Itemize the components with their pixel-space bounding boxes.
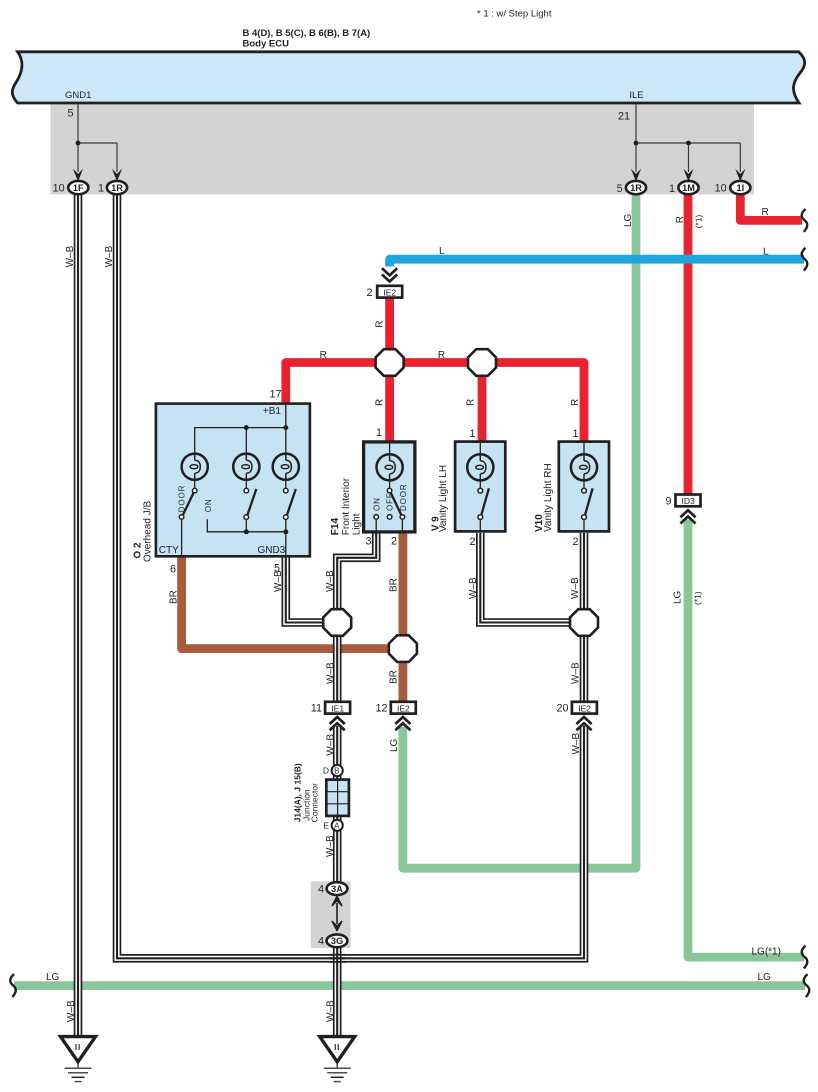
svg-text:17: 17 xyxy=(269,389,281,401)
ILE branch lines xyxy=(636,105,740,173)
Vanity Light RH V10 box xyxy=(559,442,609,532)
arrow double chevron up from IE2-20 xyxy=(576,717,591,730)
svg-text:LG: LG xyxy=(623,213,634,227)
svg-text:BR: BR xyxy=(389,670,400,684)
svg-text:DOOR: DOOR xyxy=(399,483,408,511)
arrow double chevron up below ID3 xyxy=(680,510,695,523)
junction connector circle A xyxy=(332,820,343,831)
svg-text:Connector: Connector xyxy=(310,783,320,822)
svg-text:ILE: ILE xyxy=(629,90,643,101)
svg-text:B 4(D), B 5(C), B 6(B), B 7(A): B 4(D), B 5(C), B 6(B), B 7(A) xyxy=(243,28,371,39)
svg-text:W–B: W–B xyxy=(325,835,336,857)
V9 switch xyxy=(478,488,483,493)
connector IE2 pin 12 box xyxy=(391,702,416,714)
connector oval 1R right xyxy=(626,181,646,194)
node octagon B xyxy=(468,349,496,376)
svg-text:2: 2 xyxy=(469,536,475,548)
arrowhead into 1M xyxy=(683,169,693,182)
svg-text:W–B: W–B xyxy=(571,662,582,684)
wire R from IE2-2 down to F14 xyxy=(385,299,394,442)
svg-text:W–B: W–B xyxy=(571,733,582,755)
svg-text:ON: ON xyxy=(204,498,213,512)
svg-text:(*1): (*1) xyxy=(694,215,704,229)
svg-text:2: 2 xyxy=(366,287,372,299)
svg-text:R: R xyxy=(320,350,327,361)
wire W-B from O2 GND3 to octagon 1 xyxy=(286,557,330,623)
wire LG long bottom horizontal xyxy=(14,981,805,990)
wire W-B from 20 IE2 down and left xyxy=(337,726,584,958)
svg-text:R: R xyxy=(438,350,445,361)
svg-text:IE2: IE2 xyxy=(578,703,591,713)
svg-text:LG: LG xyxy=(673,590,684,604)
svg-text:W–B: W–B xyxy=(570,577,581,599)
svg-text:Body ECU: Body ECU xyxy=(243,39,290,50)
O2 lamp 3 xyxy=(273,454,299,480)
svg-text:1: 1 xyxy=(376,427,382,439)
connector IE2 pin 2 box xyxy=(377,286,402,298)
wire W-B from V9 pin2 to octagon C xyxy=(480,533,576,623)
svg-text:ID3: ID3 xyxy=(681,496,695,506)
svg-text:D: D xyxy=(323,766,329,776)
Vanity Light LH V9 box xyxy=(455,442,505,532)
Overhead J/B box O2 xyxy=(156,404,310,557)
gray connector region xyxy=(51,104,755,194)
svg-text:IE2: IE2 xyxy=(397,703,410,713)
node octagon A xyxy=(376,349,404,376)
node octagon 2 xyxy=(389,635,417,662)
svg-text:W–B: W–B xyxy=(273,570,284,592)
wire L horizontal with elbow down to IE2-2 xyxy=(390,259,804,266)
wire W-B from 3G down to ground xyxy=(333,947,342,1037)
svg-text:1: 1 xyxy=(469,428,475,440)
svg-text:2: 2 xyxy=(391,536,397,548)
svg-text:Vanity Light RH: Vanity Light RH xyxy=(543,463,554,532)
connector oval 1I xyxy=(730,181,750,194)
arrowhead into 1F xyxy=(73,169,83,182)
connector oval 3A xyxy=(327,882,348,895)
connector oval 3G xyxy=(327,934,348,947)
wire W-B from 1F down to ground xyxy=(74,194,83,1036)
break squiggle LG left xyxy=(10,974,16,997)
F14 lamp xyxy=(377,454,403,480)
connector IE1 pin 11 box xyxy=(325,702,350,714)
F14 switch xyxy=(387,488,392,493)
svg-text:W–B: W–B xyxy=(104,245,115,267)
svg-text:IE2: IE2 xyxy=(383,287,396,297)
O2 internal junction dots xyxy=(244,425,249,430)
O2 switch 2 open xyxy=(244,488,249,493)
svg-text:3A: 3A xyxy=(331,884,343,894)
svg-text:1R: 1R xyxy=(111,183,123,193)
arrowhead into 1R left xyxy=(112,169,122,182)
svg-text:R: R xyxy=(375,399,386,406)
wire R from octagon B down to V9 xyxy=(478,363,487,442)
wire LG from 1R down, left and up to IE2-12 xyxy=(403,194,636,868)
svg-text:W–B: W–B xyxy=(326,734,337,756)
svg-text:2: 2 xyxy=(572,536,578,548)
svg-text:Light: Light xyxy=(352,513,363,535)
svg-text:6: 6 xyxy=(170,564,176,576)
connector oval 1M xyxy=(678,181,698,194)
svg-text:20: 20 xyxy=(556,703,568,715)
connector oval 1R left xyxy=(107,181,127,194)
arrow double chevron down into IE2-2 xyxy=(382,268,397,281)
svg-text:BR: BR xyxy=(168,590,179,604)
arrow double chevron up from IE2-12 xyxy=(395,717,410,730)
svg-text:IE1: IE1 xyxy=(331,703,344,713)
svg-text:R: R xyxy=(375,321,386,328)
double arrow between 3A and 3G xyxy=(336,903,338,924)
svg-text:CTY: CTY xyxy=(159,545,179,556)
svg-text:II: II xyxy=(334,1043,340,1052)
svg-text:W–B: W–B xyxy=(326,1000,337,1022)
break squiggle LG right xyxy=(804,974,810,997)
svg-text:1M: 1M xyxy=(682,183,695,193)
connector ID3 pin 9 box xyxy=(676,495,701,507)
svg-text:BR: BR xyxy=(389,578,400,592)
svg-text:10: 10 xyxy=(715,183,727,195)
O2 switch 3 open xyxy=(284,488,289,493)
svg-text:Overhead J/B: Overhead J/B xyxy=(143,501,154,562)
GND1 junction dot xyxy=(76,141,81,146)
node octagon 1 xyxy=(323,609,351,636)
wire W-B from IE1 chevron down to junction connector and 3A xyxy=(333,726,342,883)
svg-text:GND1: GND1 xyxy=(65,90,91,101)
arrow double chevron up from IE1 xyxy=(330,717,345,730)
arrowhead into 1R right xyxy=(631,169,641,182)
junction connector circle B xyxy=(332,765,343,776)
arrowhead into 1I xyxy=(735,169,745,182)
svg-text:B: B xyxy=(334,767,340,776)
svg-text:LG: LG xyxy=(46,972,60,983)
svg-text:R: R xyxy=(762,207,769,218)
V9 lamp xyxy=(467,454,493,480)
svg-text:3G: 3G xyxy=(331,936,343,946)
wire W-B from F14 pin3 jog left down through octagon 1 to IE1 xyxy=(337,533,376,701)
svg-text:5: 5 xyxy=(67,108,73,120)
Front Interior Light F14 box xyxy=(364,442,415,532)
O2 lamp 1 xyxy=(182,454,208,480)
break squiggle LG(*1) right xyxy=(802,946,808,969)
wire R from 1I down then right xyxy=(740,194,802,220)
svg-text:3: 3 xyxy=(365,536,371,548)
svg-text:W–B: W–B xyxy=(325,570,336,592)
svg-text:4: 4 xyxy=(318,884,324,896)
svg-text:E: E xyxy=(323,820,329,830)
svg-text:LG: LG xyxy=(758,972,772,983)
O2 switch 1 DOOR closed xyxy=(192,488,197,493)
svg-text:LG: LG xyxy=(389,738,400,752)
svg-text:11: 11 xyxy=(311,703,322,715)
break squiggle R right xyxy=(802,209,808,232)
ground symbol center xyxy=(320,1037,355,1062)
svg-text:L: L xyxy=(439,246,445,257)
svg-text:W–B: W–B xyxy=(66,1000,77,1022)
svg-text:1: 1 xyxy=(572,428,578,440)
svg-text:R: R xyxy=(570,399,581,406)
svg-text:W–B: W–B xyxy=(468,577,479,599)
3A 3G gray block xyxy=(311,881,351,948)
svg-text:1: 1 xyxy=(669,183,675,195)
ILE junction dots xyxy=(634,141,639,146)
wire R from 1M to ID3 xyxy=(684,194,693,494)
svg-text:Front Interior: Front Interior xyxy=(341,477,352,535)
svg-text:(*1): (*1) xyxy=(693,591,703,605)
svg-text:1F: 1F xyxy=(73,183,84,193)
svg-text:F14: F14 xyxy=(330,518,341,536)
wire W-B from 1R down and right xyxy=(117,194,337,958)
svg-text:L: L xyxy=(763,247,769,258)
svg-text:1I: 1I xyxy=(736,183,744,193)
svg-text:5: 5 xyxy=(617,183,623,195)
ground symbol left xyxy=(61,1037,96,1062)
svg-text:10: 10 xyxy=(53,183,65,195)
svg-text:9: 9 xyxy=(665,496,671,508)
svg-text:ON: ON xyxy=(372,497,381,511)
break squiggle L right xyxy=(802,248,808,271)
svg-text:OFF: OFF xyxy=(386,492,395,511)
wire BR from O2 CTY down and right xyxy=(182,557,403,649)
connector oval 1F xyxy=(68,181,88,194)
junction connector grid box J14/J15 xyxy=(326,780,349,816)
svg-text:Vanity Light LH: Vanity Light LH xyxy=(438,465,449,532)
svg-text:R: R xyxy=(675,216,686,223)
svg-text:II: II xyxy=(75,1043,81,1052)
svg-text:DOOR: DOOR xyxy=(178,485,187,513)
V10 lamp xyxy=(571,454,597,480)
GND1 branch lines xyxy=(78,105,117,173)
svg-text:21: 21 xyxy=(618,111,630,123)
svg-text:W–B: W–B xyxy=(326,662,337,684)
svg-text:1R: 1R xyxy=(630,183,642,193)
svg-text:* 1 : w/ Step Light: * 1 : w/ Step Light xyxy=(477,9,552,20)
svg-text:4: 4 xyxy=(318,936,324,948)
wire W-B from V10 pin2 through octagon C to 20 IE2 xyxy=(580,533,589,701)
svg-text:GND3: GND3 xyxy=(258,545,286,556)
svg-text:R: R xyxy=(466,399,477,406)
svg-text:A: A xyxy=(334,821,340,830)
svg-text:12: 12 xyxy=(375,703,387,715)
svg-text:LG(*1): LG(*1) xyxy=(752,947,781,958)
V10 switch xyxy=(582,488,587,493)
wire R horizontal with elbows to O2 and V10 xyxy=(286,363,584,442)
Body ECU bar xyxy=(12,52,804,103)
wire BR from F14 pin2 down to IE2-12 xyxy=(398,533,407,701)
O2 lamp 2 xyxy=(233,454,259,480)
svg-text:W–B: W–B xyxy=(65,245,76,267)
connector IE2 pin 20 box xyxy=(572,702,597,714)
svg-text:1: 1 xyxy=(98,183,104,195)
wire W-B crossing patch at 3G junction xyxy=(329,955,346,962)
svg-text:+B1: +B1 xyxy=(263,406,282,417)
node octagon C xyxy=(570,609,598,636)
wire LG from ID3 down then right xyxy=(688,520,804,958)
